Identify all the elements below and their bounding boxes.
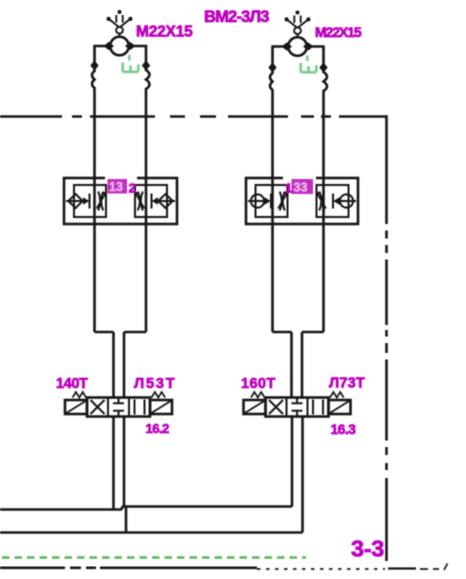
svg-text:140Т: 140Т xyxy=(56,376,88,392)
pipe from C1 to valve 16.2 (right) xyxy=(123,332,126,398)
check valve 13.2L diamond xyxy=(68,194,82,208)
throttle 13.3R arrow xyxy=(317,194,326,209)
cylinder C2 right wall xyxy=(324,45,328,332)
blocked center of 16.3 xyxy=(292,398,303,417)
cylinder C2 top plate wires xyxy=(273,45,324,48)
gauge port circle of cylinder C1 xyxy=(110,37,129,56)
label 13.3 highlight box xyxy=(292,179,314,194)
end hook of break line xyxy=(420,564,448,571)
wire drop connector x=126 xyxy=(125,507,128,533)
svg-text:М22Х15: М22Х15 xyxy=(136,24,193,41)
pipe from C2 to valve 16.3 (right) xyxy=(301,332,304,398)
wire H1 lower-left segment xyxy=(0,508,122,511)
svg-text:Л73Т: Л73Т xyxy=(329,376,365,392)
wire through 13.2L xyxy=(66,200,88,202)
boss diamond on C1 left wall xyxy=(90,61,98,71)
straight arrows in right square of 16.3 xyxy=(313,400,323,415)
pipe P of valve 16.3 xyxy=(291,417,294,507)
spring right of valve 16.2 xyxy=(152,392,166,398)
pipe T of valve 16.2 xyxy=(123,417,126,508)
node: right seal diamond on circle C1 xyxy=(125,42,135,50)
boss diamond on C2 right wall xyxy=(319,63,327,73)
svg-text:2: 2 xyxy=(129,181,136,196)
directional valve 16.2 squares xyxy=(87,398,150,417)
throttle-check unit 13.2 right inner box xyxy=(135,185,167,217)
throttle 13.3L arcs xyxy=(280,192,285,211)
wire H1 upper-right segment to valve 16.3 xyxy=(122,505,292,508)
throttle 13.3L arrow xyxy=(278,194,287,209)
svg-text:1: 1 xyxy=(285,181,292,196)
cylinder C1 top plate wires xyxy=(95,45,147,48)
seat bar 13.3R xyxy=(332,194,334,209)
throttle-check valve block 13.2 outer box xyxy=(64,178,177,224)
straight arrows in right square of 16.2 xyxy=(135,400,145,415)
throttle 13.2R arcs xyxy=(138,192,143,211)
arrow 13.3L xyxy=(265,197,271,204)
throttle-check unit 13.3 right inner box xyxy=(317,185,349,217)
green position mark under circle C1 xyxy=(123,55,139,72)
wire through 13.3L xyxy=(248,200,270,202)
spring left of valve 16.3 xyxy=(251,392,265,398)
label 13.2 highlight box xyxy=(108,179,128,194)
node: right seal diamond on circle C2 xyxy=(303,42,313,50)
node: left seal diamond on circle C1 xyxy=(104,42,114,50)
boss diamond on C2 left wall xyxy=(268,63,276,73)
pipe from C2 to valve 16.3 (left) xyxy=(290,332,293,398)
label underlay 13.3 xyxy=(283,177,316,195)
throttle 13.2L arcs xyxy=(98,192,103,211)
cylinder C2 bottom shoulder wires xyxy=(273,331,324,334)
crossed arrows in left square of 16.2 xyxy=(91,400,105,414)
throttle-check valve block 13.3 outer box xyxy=(246,178,358,224)
breather cap B1 (M22x1.5 port) xyxy=(107,10,133,37)
label underlay 13.2 xyxy=(105,177,137,194)
arrow 13.2R xyxy=(152,197,158,204)
pipe P of valve 16.2 xyxy=(112,417,115,510)
svg-text:13: 13 xyxy=(109,180,123,194)
gauge port circle of cylinder C2 xyxy=(288,37,307,56)
arrow 13.3R xyxy=(333,197,339,204)
svg-text:Л53Т: Л53Т xyxy=(134,376,176,392)
arrow 13.2L xyxy=(83,197,89,204)
pipe from C1 to valve 16.2 (left) xyxy=(112,332,115,398)
cylinder C2 left wall xyxy=(270,45,273,332)
svg-text:3-3: 3-3 xyxy=(351,536,384,562)
pipe T of valve 16.3 xyxy=(301,417,304,533)
svg-text:ВМ2-3Л3: ВМ2-3Л3 xyxy=(204,8,269,26)
green dashed boundary line xyxy=(2,556,306,559)
throttle 13.3R arcs xyxy=(319,192,324,211)
cylinder C1 right wall xyxy=(146,45,150,332)
dark dash near end of break line xyxy=(388,567,416,569)
svg-text:16.2: 16.2 xyxy=(146,421,170,436)
directional valve 16.3 squares xyxy=(266,398,329,417)
seat bar 13.3L xyxy=(270,194,272,209)
solenoid B2 of valve 16.3 xyxy=(329,400,351,414)
dotted continuation of break line xyxy=(257,568,385,570)
blocked center of 16.2 xyxy=(113,398,124,417)
svg-text:33: 33 xyxy=(294,181,308,195)
solenoid A1 of valve 16.2 xyxy=(65,400,87,414)
wire through 13.3R xyxy=(335,200,357,202)
throttle-check unit 13.3 left inner box xyxy=(256,185,288,217)
green position mark under circle C2 xyxy=(301,56,317,73)
seat bar 13.2R xyxy=(151,194,153,209)
node: left seal diamond on circle C2 xyxy=(282,42,292,50)
throttle 13.2R arrow xyxy=(136,194,145,209)
wire: section line vertical right x=386.5 xyxy=(385,115,388,561)
crossed arrows in left square of 16.3 xyxy=(269,400,283,414)
svg-text:160Т: 160Т xyxy=(241,376,276,392)
check valve 13.2R diamond xyxy=(158,194,172,208)
cylinder C1 bottom shoulder wires xyxy=(95,331,147,334)
check valve 13.3R ball xyxy=(340,194,353,207)
check valve 13.3L ball xyxy=(251,194,264,207)
breather cap B2 (M22x1.5 port) xyxy=(285,11,311,38)
black bottom break line xyxy=(0,566,257,569)
cylinder C1 left wall xyxy=(92,45,95,332)
throttle-check unit 13.2 left inner box xyxy=(74,185,106,217)
wire through 13.2R xyxy=(153,200,175,202)
solenoid B1 of valve 16.2 xyxy=(150,400,172,414)
throttle 13.2L arrow xyxy=(97,194,106,209)
spring right of valve 16.3 xyxy=(330,392,344,398)
svg-text:М22Х15: М22Х15 xyxy=(315,24,362,40)
wire: section dash-dot line 3-3 horizontal y=116.5 xyxy=(0,115,388,118)
spring left of valve 16.2 xyxy=(73,392,87,398)
boss diamond on C1 right wall xyxy=(142,61,150,71)
solenoid A2 of valve 16.3 xyxy=(244,400,266,414)
wire H1 jog xyxy=(121,507,124,510)
seat bar 13.2L xyxy=(89,194,91,209)
svg-text:16.3: 16.3 xyxy=(331,421,357,437)
wire H2 to valve 16.3 T xyxy=(0,531,303,534)
